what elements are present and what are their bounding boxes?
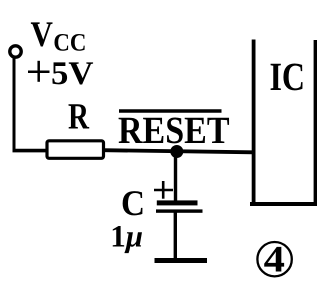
label +5V: [28, 56, 94, 92]
ground (bar): [155, 258, 208, 263]
svg-text:4: 4: [264, 240, 286, 281]
bottom plate: [156, 209, 203, 212]
svg-text:R: R: [68, 97, 90, 138]
label Vcc: [31, 14, 87, 56]
svg-text:5V: 5V: [51, 56, 94, 92]
net label /RESET (overline): [119, 109, 222, 113]
resistor R: [47, 141, 104, 159]
node junction dot: [170, 145, 183, 158]
svg-text:IC: IC: [270, 54, 306, 99]
wire from resistor to IC: [103, 150, 253, 152]
plus polarity mark: [154, 189, 173, 192]
svg-text:CC: CC: [53, 29, 86, 56]
svg-text:1μ: 1μ: [110, 218, 143, 253]
IC U1 box (open at top): [250, 40, 317, 205]
wire junction to capacitor top: [174, 151, 177, 203]
wire capacitor bottom to ground: [174, 212, 177, 260]
top plate: [157, 200, 198, 205]
svg-text:C: C: [121, 183, 145, 223]
wire vertical from Vcc terminal down: [13, 57, 16, 152]
capacitor C (polarized): [154, 181, 203, 213]
svg-text:V: V: [31, 14, 53, 54]
wire horizontal from corner to resistor: [13, 149, 48, 153]
terminal Vcc (open circle): [10, 46, 21, 57]
figure number 4 (circled): [257, 240, 291, 281]
